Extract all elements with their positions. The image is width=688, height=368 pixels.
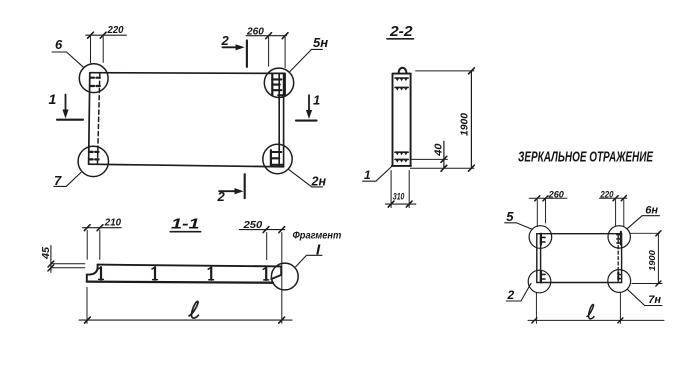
mirror hidden dashed line: [617, 235, 619, 282]
mirror dimension 1900: [630, 233, 662, 283]
panel section right end step: [271, 266, 281, 279]
mirror embedded channel 2: [540, 272, 542, 283]
anchor row bottom 2: [395, 158, 408, 160]
embedded item 6 dashed ticks: [91, 78, 101, 86]
mirror detail circle 2 (bottom-left): [528, 270, 551, 293]
dimension 40 extension lines: [410, 159, 474, 168]
panel outline bottom edge: [89, 164, 284, 167]
svg-text:7н: 7н: [648, 294, 661, 306]
svg-text:6н: 6н: [645, 205, 658, 217]
detail circle 6 (top-left): [79, 64, 108, 93]
anchor row top 2: [395, 86, 408, 88]
dimension 1900: [416, 70, 474, 72]
svg-text:1: 1: [49, 91, 57, 107]
mirror panel top edge: [537, 233, 622, 235]
mirror detail circle 7n (bottom-right): [608, 270, 631, 293]
svg-text:310: 310: [393, 191, 405, 202]
right extension line through fragment circle: [281, 233, 283, 324]
detail circle 5n (top-right): [264, 68, 293, 97]
mirror detail circle 5 (top-left): [529, 226, 552, 249]
fragment circle: [271, 263, 298, 290]
script ell label: [189, 301, 198, 318]
svg-text:1900: 1900: [648, 250, 657, 271]
mirror panel left edge double line: [537, 234, 541, 283]
panel section top edge: [98, 265, 282, 267]
anchor row bottom 1: [395, 151, 408, 153]
mirror dimension l: [528, 319, 664, 321]
anchor mark 1: [100, 267, 102, 279]
svg-text:1-1: 1-1: [171, 216, 200, 232]
embedded item 7 dashed ticks: [89, 152, 98, 160]
mirror panel right edge: [621, 234, 623, 283]
anchor mark 3: [210, 267, 212, 279]
embedded channel 5n bottom flange: [278, 74, 285, 96]
column outline: [392, 74, 411, 166]
detail circle 2n (bottom-right): [263, 144, 292, 173]
svg-text:Фрагмент: Фрагмент: [293, 230, 342, 242]
embedded channel 5n ticks: [272, 79, 281, 90]
svg-text:2: 2: [221, 33, 230, 48]
embedded channel 2n bar: [270, 150, 272, 165]
anchor mark 4: [265, 268, 267, 280]
mirror embedded item 7n dashed: [617, 272, 619, 281]
svg-text:6: 6: [55, 37, 63, 52]
lifting loop: [399, 68, 407, 74]
svg-text:ЗЕРКАЛЬНОЕ ОТРАЖЕНИЕ: ЗЕРКАЛЬНОЕ ОТРАЖЕНИЕ: [518, 149, 654, 165]
embedded channel 2n ticks: [271, 152, 283, 165]
hidden dashed line along left edge: [98, 74, 100, 163]
mirror detail circle 6n (top-right): [608, 226, 630, 248]
anchor row top 1: [395, 77, 408, 79]
svg-text:1: 1: [364, 168, 371, 182]
panel section bottom edge: [87, 282, 273, 283]
panel right edge double line: [279, 73, 283, 167]
embedded channel 5n bar: [271, 74, 273, 95]
svg-text:220: 220: [107, 25, 124, 36]
svg-text:40: 40: [434, 143, 445, 157]
mirror embedded item 6n: [620, 232, 622, 245]
svg-text:5н: 5н: [313, 35, 328, 50]
mirror script ell: [587, 304, 594, 318]
mirror embedded channel 5: [540, 234, 542, 245]
detail circle 7 (bottom-left): [78, 146, 108, 176]
svg-text:250: 250: [243, 219, 263, 231]
panel outline top edge: [90, 72, 285, 75]
svg-text:210: 210: [104, 218, 122, 229]
svg-text:2-2: 2-2: [389, 24, 413, 40]
anchor mark 2: [154, 267, 156, 279]
panel section left end with notch: [87, 265, 98, 282]
svg-text:1: 1: [313, 92, 320, 107]
svg-text:2: 2: [507, 288, 515, 302]
svg-text:1900: 1900: [459, 113, 471, 136]
svg-text:5: 5: [506, 209, 514, 224]
mirror panel bottom edge: [537, 282, 622, 284]
svg-text:45: 45: [40, 247, 52, 260]
dimension l (ell): [79, 319, 292, 321]
panel outline left edge: [89, 73, 90, 164]
